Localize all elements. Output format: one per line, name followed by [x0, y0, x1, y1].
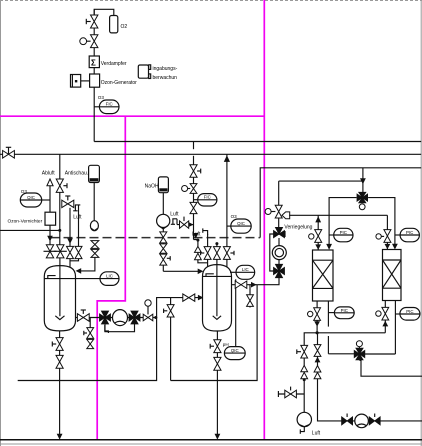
valve 3way recirc A: [100, 311, 111, 324]
wire antifoam into vessel 1 dome: [76, 257, 95, 273]
valve column B: [314, 345, 321, 357]
svg-text:QIC: QIC: [27, 195, 35, 200]
wire vessel 2 side outlet: [232, 284, 258, 286]
check valve c1a vessel 2: [195, 246, 202, 252]
valve at left end of line B: [3, 147, 15, 158]
flow arrow below left adsorber: [314, 321, 320, 326]
node jog to check column: [194, 240, 198, 248]
valve 3way recirc B: [129, 311, 140, 324]
svg-text:Ozon-Generator: Ozon-Generator: [101, 80, 137, 86]
node dot header left: [316, 331, 319, 334]
valve bottom left adsorber: [308, 308, 321, 321]
svg-text:FIC: FIC: [106, 102, 113, 107]
wire destructor to feed valve V1: [49, 225, 51, 245]
node dot c3: [215, 242, 218, 245]
valve drain 2 vessel 2: [214, 357, 221, 370]
valve 3way interlock A: [274, 227, 286, 237]
Abluft vent arrow up: [47, 179, 53, 200]
wire stub line A to vessel 2 ozone column: [193, 142, 195, 150]
svg-text:PIC: PIC: [406, 309, 413, 314]
wire interlock valve to 3way: [278, 218, 280, 229]
wire side vent line y394: [278, 391, 304, 397]
bottom drain header: [0, 439, 422, 441]
flow arrow up right adsorber outlet: [382, 321, 388, 327]
flow arrow vessel 2 drain into header: [215, 434, 221, 440]
flow arrow down on V3 line: [67, 238, 73, 244]
valve NaOH 1: [160, 232, 167, 243]
valve V5a antifoam: [91, 241, 99, 249]
wire vessel 1 level to LIC: [76, 278, 101, 280]
vessel 2 reactor R2: [203, 265, 232, 331]
Luft valve vessel 1 area: [62, 196, 74, 208]
power supply box with dot: [71, 75, 81, 88]
valve c2 vessel 2 feed: [201, 247, 212, 260]
instrument FIC O3 top: [94, 100, 119, 114]
wire interlock column: [278, 181, 280, 205]
valve drain 1 vessel 2: [210, 340, 221, 353]
wire vessel 1 drain: [59, 331, 61, 439]
svg-text:PIC: PIC: [340, 230, 347, 235]
ozone destructor box: [45, 212, 56, 225]
valve V-O2b actuated valve: [80, 35, 98, 48]
ozone generator U-Ozongenerator: [90, 74, 100, 87]
wire offgas header line B: [0, 153, 421, 155]
valve interlock control: [265, 205, 282, 218]
check valve c1b vessel 2: [195, 253, 202, 260]
instrument LIC vessel 1: [100, 272, 119, 286]
valve column A hand: [297, 345, 308, 358]
svg-text:QIC: QIC: [231, 348, 239, 353]
wire antifoam container to pump: [93, 183, 95, 222]
svg-text:O3: O3: [231, 214, 238, 219]
pump interlock: [272, 246, 286, 260]
Luft elbow ozone column: [171, 219, 177, 225]
check valve column B: [314, 366, 321, 379]
wire column B down to bottom train: [317, 333, 422, 421]
wire V4 merge to V3 line into dome: [70, 259, 79, 267]
flow arrow down on vessel1 feed: [47, 236, 53, 242]
flow arrow into right adsorber: [392, 244, 398, 250]
wire regeneration header: [304, 333, 385, 414]
magenta boundary line vertical left: [97, 116, 125, 439]
wire 4way left arm regen: [328, 353, 354, 355]
instrument LIC vessel 2: [230, 265, 255, 279]
wire NaOH container to pump: [162, 193, 164, 215]
svg-text:Luft: Luft: [73, 214, 82, 220]
antifoam dosing pump: [90, 221, 98, 231]
wire interlock header y181: [279, 180, 363, 182]
svg-text:Abluft: Abluft: [42, 171, 55, 177]
check valve column A: [301, 365, 308, 378]
wire pump to 3way B: [278, 260, 280, 267]
flow arrow down ozone column: [193, 233, 199, 239]
valve V-O2 hand valve: [86, 15, 98, 28]
wire clean-gas header line C: [260, 168, 421, 238]
svg-text:Σ: Σ: [91, 58, 96, 67]
instrument QIC O3 vessel 2: [227, 219, 251, 233]
wire Luft to valve V3: [69, 208, 71, 247]
node junction dot: [58, 229, 61, 232]
wire left adsorber bottom valve line: [316, 301, 318, 333]
valve NaOH 2: [160, 244, 167, 253]
wire c1 merge to c2: [198, 260, 208, 263]
valve 4way adsorber top: [357, 192, 368, 209]
signal dashed line: [51, 237, 261, 239]
wire NaOH into vessel 2 dome: [163, 269, 203, 275]
wire NaOH pump to valves: [162, 228, 164, 272]
valve vent left adsorber: [309, 230, 322, 243]
wire evaporator to generator: [93, 68, 95, 74]
valve bottom train 2: [369, 414, 380, 426]
wire recirculation line vessel 1: [76, 317, 156, 319]
svg-text:Antischau.: Antischau.: [65, 171, 88, 177]
svg-text:Luft: Luft: [192, 231, 201, 237]
drain elbow below recirc: [105, 325, 109, 333]
valve NaOH 3: [160, 254, 170, 265]
wire downcomer from recirc junction: [18, 318, 157, 381]
instrument PIC right bottom: [395, 308, 420, 321]
adsorber column left: [313, 250, 334, 301]
wire O2 bottle to valve line: [94, 9, 114, 15]
wire interlock column to outlet line: [257, 278, 279, 285]
svg-text:Luft: Luft: [170, 212, 179, 218]
svg-text:Luft: Luft: [312, 430, 321, 436]
wire 4way right arm regen: [364, 353, 395, 355]
wire LIC down to pH QIC: [235, 279, 237, 346]
valve ozone feed vessel 1: [56, 179, 67, 192]
svg-text:LIC: LIC: [106, 273, 113, 278]
svg-text:pH: pH: [223, 342, 229, 347]
valve V2 vessel 1 feed: [54, 245, 67, 258]
evaporator U-Verdampfer: [89, 56, 99, 68]
agitator vessel 2: [213, 260, 221, 319]
svg-text:berwachun: berwachun: [153, 75, 178, 81]
wire 4way left arm to left adsorber: [329, 198, 356, 247]
valve bottom right adsorber: [376, 307, 389, 320]
wire generator down to O3 header: [93, 87, 95, 141]
magenta boundary line horizontal top: [0, 115, 264, 117]
svg-text:LIC: LIC: [242, 267, 249, 272]
instrument PIC right top: [395, 228, 420, 242]
wire main vertical from bottle valves to evaporator: [93, 9, 95, 56]
valve 3way interlock B: [274, 264, 285, 277]
wire 4way bottom outlet to edge: [360, 360, 422, 376]
valve bottom train 1: [342, 414, 353, 426]
wire bypass interlock: [270, 234, 274, 271]
svg-text:ingabungs-: ingabungs-: [153, 66, 178, 72]
svg-text:O3: O3: [98, 95, 105, 100]
wire left header y230: [0, 229, 60, 231]
valve below FIC: [190, 202, 197, 213]
svg-text:Verriegelung: Verriegelung: [284, 225, 312, 231]
flow arrow into bottom drain header: [57, 434, 63, 440]
wire QIC line down to destructor: [49, 200, 51, 212]
valve Luft inject: [177, 217, 194, 229]
Luft elbow blower outlet: [300, 427, 304, 434]
sample valve stub below recirc line: [84, 318, 94, 350]
wire left adsorber bypass nozzle: [327, 301, 329, 327]
valve hand ozone column: [190, 165, 201, 177]
svg-text:Verdampfer: Verdampfer: [101, 61, 127, 67]
flow arrow into left adsorber top: [315, 244, 321, 249]
vessel 1 reactor R1: [44, 266, 75, 331]
valve 4way regeneration: [354, 341, 365, 360]
adsorber column right: [383, 250, 402, 301]
valve feed right adsorber: [376, 230, 391, 243]
wire left bypass resumes to 4way arm: [327, 336, 329, 354]
wire feed valve right adsorber: [386, 215, 388, 249]
svg-text:NaOH: NaOH: [145, 183, 159, 189]
instrument PIC left bottom: [328, 307, 354, 319]
valve recirc isolation: [77, 310, 89, 321]
valve control ozone column: [182, 184, 197, 194]
wire Luft column c2: [207, 234, 209, 268]
flow arrow into left adsorber: [326, 244, 332, 250]
svg-text:O2: O2: [121, 24, 128, 30]
node dot column A: [303, 378, 306, 381]
wire 3way to pump: [278, 238, 280, 246]
valve side outlet vessel 2: [235, 281, 247, 288]
valve c3 vessel 2 feed: [213, 247, 220, 260]
svg-text:PIC: PIC: [341, 308, 348, 313]
wire feed drop to 4way top: [362, 168, 364, 193]
wire ozone column vessel 2: [193, 156, 195, 240]
svg-text:PIC: PIC: [406, 230, 413, 235]
sample stub with valve vessel 2: [247, 285, 254, 308]
node junction dot recirc: [154, 316, 157, 319]
valve drain 2 vessel 1: [56, 355, 63, 368]
wire vessel 2 drain: [216, 331, 218, 439]
svg-text:FIC: FIC: [204, 195, 211, 200]
flow arrow up into vent header: [315, 216, 321, 222]
valve V1 vessel 1 feed: [44, 245, 57, 258]
instrument FIC vessel 2 feed: [194, 194, 217, 206]
O2 gas bottle: [110, 16, 118, 33]
valve on branch downcomer: [164, 305, 175, 317]
wire 4way right arm to right adsorber: [368, 198, 395, 246]
pump NaOH dosing: [157, 214, 170, 229]
valve control recirc: [143, 300, 153, 321]
valve side vent: [285, 387, 297, 398]
Luft inlet elbow vessel 1: [73, 205, 80, 211]
node dot ozone column: [196, 239, 199, 242]
Luft elbow vessel 2 dome: [203, 228, 208, 234]
wire branch with valve to return line: [171, 285, 258, 381]
wire line B down to vessel 1 feed: [59, 154, 61, 245]
flow arrow side outlet: [251, 282, 257, 288]
valve V4 vessel 1 feed: [75, 246, 82, 258]
monitoring box Eingabungs-ueberwachung: [138, 65, 150, 79]
valve vessel 2 inlet: [183, 294, 195, 301]
wire ozone header line A: [94, 141, 421, 143]
svg-text:QIC: QIC: [237, 221, 245, 226]
pump bottom train: [355, 414, 369, 428]
flow arrow into vessel 2 wall: [198, 295, 204, 301]
flow arrow down to 4way: [360, 178, 366, 184]
valve V3 vessel 1 feed: [67, 246, 74, 258]
instrument QIC O3 vessel 1: [20, 193, 50, 207]
pump blower column A: [297, 412, 311, 426]
valve c4 offgas vessel 2: [223, 247, 234, 260]
antifoam container: [89, 165, 100, 182]
valve drain 1 vessel 1: [52, 338, 63, 351]
wire right adsorber bottom valve line: [384, 301, 386, 333]
pump recirculation P1: [113, 310, 128, 326]
wire pump bypass: [105, 322, 135, 332]
wire right adsorber bypass nozzle down: [394, 301, 396, 355]
wire vent line left adsorber: [317, 215, 319, 250]
agitator vessel 1: [55, 258, 64, 320]
NaOH container: [158, 177, 168, 193]
wire elbow to valve V4: [78, 205, 80, 247]
svg-text:Ozon-Vernichter: Ozon-Vernichter: [8, 219, 43, 225]
wire column c3 agitator feed: [216, 243, 218, 260]
wire power box to generator: [81, 80, 90, 82]
instrument QIC pH: [224, 347, 245, 360]
flow arrow into right adsorber top: [385, 244, 391, 249]
off-page flag: [282, 212, 387, 219]
wire riser to vessel 2 inlet line: [156, 298, 203, 318]
flow arrow up column B: [315, 357, 321, 363]
instrument PIC left top: [329, 228, 353, 242]
wire line B down to vessel 2 offgas column: [224, 154, 230, 268]
valve V5b antifoam: [91, 249, 99, 257]
magenta boundary line vertical right: [263, 0, 265, 440]
